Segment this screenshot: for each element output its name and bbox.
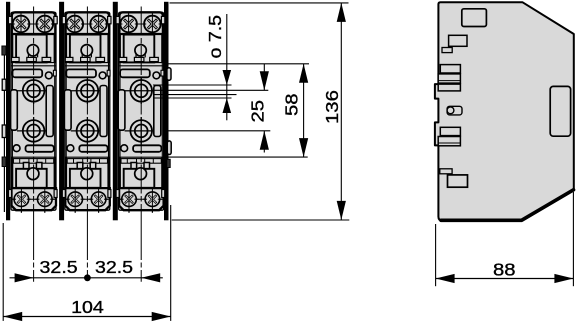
lower center hole [135, 168, 147, 180]
terminal screw top-left [64, 13, 85, 36]
terminal screw bottom-left [66, 189, 85, 209]
centerline extension pole2 [86, 216, 88, 278]
side rect K [448, 175, 468, 187]
lower housing section [119, 156, 164, 158]
side right recess [550, 86, 570, 136]
right end-plate tab 3 [167, 159, 170, 167]
mounting hole dial upper [23, 80, 45, 102]
extension line hole center (25 top) [153, 89, 269, 91]
mounting hole dial lower [77, 120, 99, 142]
extension line bottom (136) [172, 219, 350, 221]
bottom terminal block [119, 188, 164, 210]
small hole lower-left [13, 145, 20, 152]
bottom side tabs [9, 190, 12, 198]
right edge notch [161, 70, 164, 76]
svg-text:o 7.5: o 7.5 [205, 15, 225, 59]
mounting hole dial upper [130, 80, 152, 102]
left end-plate tab 3 [2, 125, 6, 138]
lower housing box [124, 169, 155, 188]
extension line top (136) [170, 2, 349, 4]
upper housing section [70, 35, 101, 63]
mounting hole dial lower [23, 120, 45, 142]
top side tabs [62, 16, 65, 23]
small hole right of slot [99, 72, 106, 79]
pole body outline [119, 12, 164, 210]
feet stubs [128, 210, 130, 213]
lower housing section [65, 156, 110, 158]
terminal screw top-right [34, 13, 55, 36]
terminal screw bottom-left [12, 189, 31, 209]
left recess [64, 90, 71, 130]
top terminal block [119, 12, 163, 34]
small hole lower-left [67, 145, 74, 152]
side rect J [440, 169, 452, 174]
bottom side tabs [62, 190, 65, 198]
side view top square recess [462, 9, 487, 27]
upper center hole [27, 45, 38, 56]
terminal axis line bottom [119, 198, 164, 200]
upper center hole [135, 45, 146, 56]
lower center hole [27, 168, 39, 180]
terminal screw top-right [142, 13, 163, 36]
right end-plate tab 2 [167, 141, 171, 155]
terminal axis line bottom [65, 198, 110, 200]
bottom terminal block [12, 188, 57, 210]
lower housing box [70, 169, 101, 188]
centerline extension pole1 [33, 216, 35, 282]
left end-plate edge line [3, 55, 5, 212]
side view housing outline [435, 2, 574, 220]
extension line section (58 bottom) [168, 156, 308, 158]
side rect D [438, 74, 460, 83]
side rect G [440, 127, 460, 135]
side rect C [440, 65, 460, 73]
right end-plate tab 1 [167, 68, 171, 81]
lower housing box [16, 169, 47, 188]
shutter teeth row [119, 57, 127, 61]
hanging tabs [23, 163, 29, 169]
bottom side tabs [116, 190, 119, 198]
side view bottom thick edge [441, 190, 574, 221]
terminal screw bottom-right [35, 189, 54, 209]
terminal screw top-left [11, 13, 32, 36]
extension line lower hole center (25 bottom) [167, 130, 270, 132]
left end-plate tab 4 [2, 157, 6, 167]
right recess [100, 86, 107, 137]
svg-text:25: 25 [249, 100, 268, 123]
top terminal block [66, 12, 110, 34]
svg-text:136: 136 [323, 90, 342, 124]
extension line 88 left [435, 224, 437, 286]
dimension 104 [3, 297, 171, 321]
pole module 2 [62, 7, 111, 217]
small hole lower-left [121, 145, 128, 152]
side walls [65, 34, 67, 62]
mounting hole dial upper [77, 80, 99, 102]
side rect B [442, 48, 452, 53]
extension line 104 right [170, 205, 172, 321]
extension line 88 right [572, 192, 574, 286]
dimension 136 [323, 3, 346, 220]
svg-text:58: 58 [283, 93, 302, 116]
pole body outline [65, 12, 110, 210]
side walls [118, 34, 120, 62]
extension line mid (o7.5) [153, 94, 237, 96]
terminal screw top-right [88, 13, 109, 36]
top terminal block [12, 12, 56, 34]
pole centerline [86, 7, 88, 217]
mounting hole dial lower [130, 120, 152, 142]
left end-plate tab 1 [2, 46, 6, 55]
lower label slot [26, 145, 54, 152]
small hole right of slot [45, 72, 52, 79]
bottom terminal block [65, 188, 110, 210]
extension line A (58/25 top) [168, 63, 309, 65]
side rect A [449, 35, 467, 46]
dimension 58 [283, 64, 308, 157]
left recess [11, 90, 18, 130]
terminal axis line top [63, 23, 111, 25]
label slot [120, 69, 150, 77]
terminal screw bottom-left [120, 189, 139, 209]
feet stubs [74, 210, 76, 213]
side walls [11, 34, 13, 62]
upper center hole [81, 45, 92, 56]
shutter teeth row [65, 57, 73, 61]
extension line 104 left [2, 223, 4, 321]
centerline extension pole3 [140, 216, 142, 282]
terminal screw bottom-right [143, 189, 162, 209]
pole centerline [33, 7, 35, 217]
label slot [66, 69, 96, 77]
svg-text:32.5: 32.5 [40, 257, 78, 277]
upper housing section [16, 35, 47, 63]
side rect H [438, 137, 460, 146]
terminal screw top-left [118, 13, 139, 36]
label slot [13, 69, 43, 77]
left end-plate tab 2 [2, 79, 6, 90]
hanging tabs [77, 163, 83, 169]
lower label slot [133, 145, 161, 152]
mounting rail bar far-right [164, 2, 169, 221]
right recess [154, 86, 161, 137]
pole centerline [140, 7, 142, 217]
terminal axis line top [9, 23, 57, 25]
dimension 25 [249, 64, 269, 153]
right edge notch [53, 70, 56, 76]
svg-text:88: 88 [493, 261, 516, 280]
top side tabs [116, 16, 119, 23]
lower housing section [11, 156, 56, 158]
side clip button [447, 106, 462, 115]
terminal axis line bottom [12, 198, 57, 200]
hanging tabs [131, 163, 137, 169]
upper housing section [124, 35, 155, 63]
side rect E [438, 84, 460, 91]
mounting rail bar between pole 2-3 [113, 2, 118, 221]
pole module 3 [116, 7, 165, 217]
shutter teeth row [12, 57, 20, 61]
mounting rail bar between pole 1-2 [59, 2, 64, 221]
pole body outline [11, 12, 56, 210]
svg-text:104: 104 [71, 297, 104, 317]
extension line hole bottom (o7.5) [153, 97, 232, 99]
dimension o7.5 [205, 14, 231, 120]
lower label slot [79, 145, 107, 152]
extension line hole top (o7.5) [153, 84, 232, 86]
right edge notch [107, 70, 110, 76]
dimension 32.5 / 32.5 [10, 257, 163, 282]
svg-text:32.5: 32.5 [95, 257, 133, 277]
left recess [118, 90, 125, 130]
feet stubs [20, 210, 22, 213]
top side tabs [8, 16, 11, 23]
mounting rail bar far-left [6, 2, 10, 221]
dimension 88 [436, 261, 574, 284]
terminal screw bottom-right [89, 189, 108, 209]
small hole right of slot [153, 72, 160, 79]
lower center hole [81, 168, 93, 180]
pole module 1 [8, 7, 57, 217]
right recess [46, 86, 53, 137]
terminal axis line top [116, 23, 164, 25]
